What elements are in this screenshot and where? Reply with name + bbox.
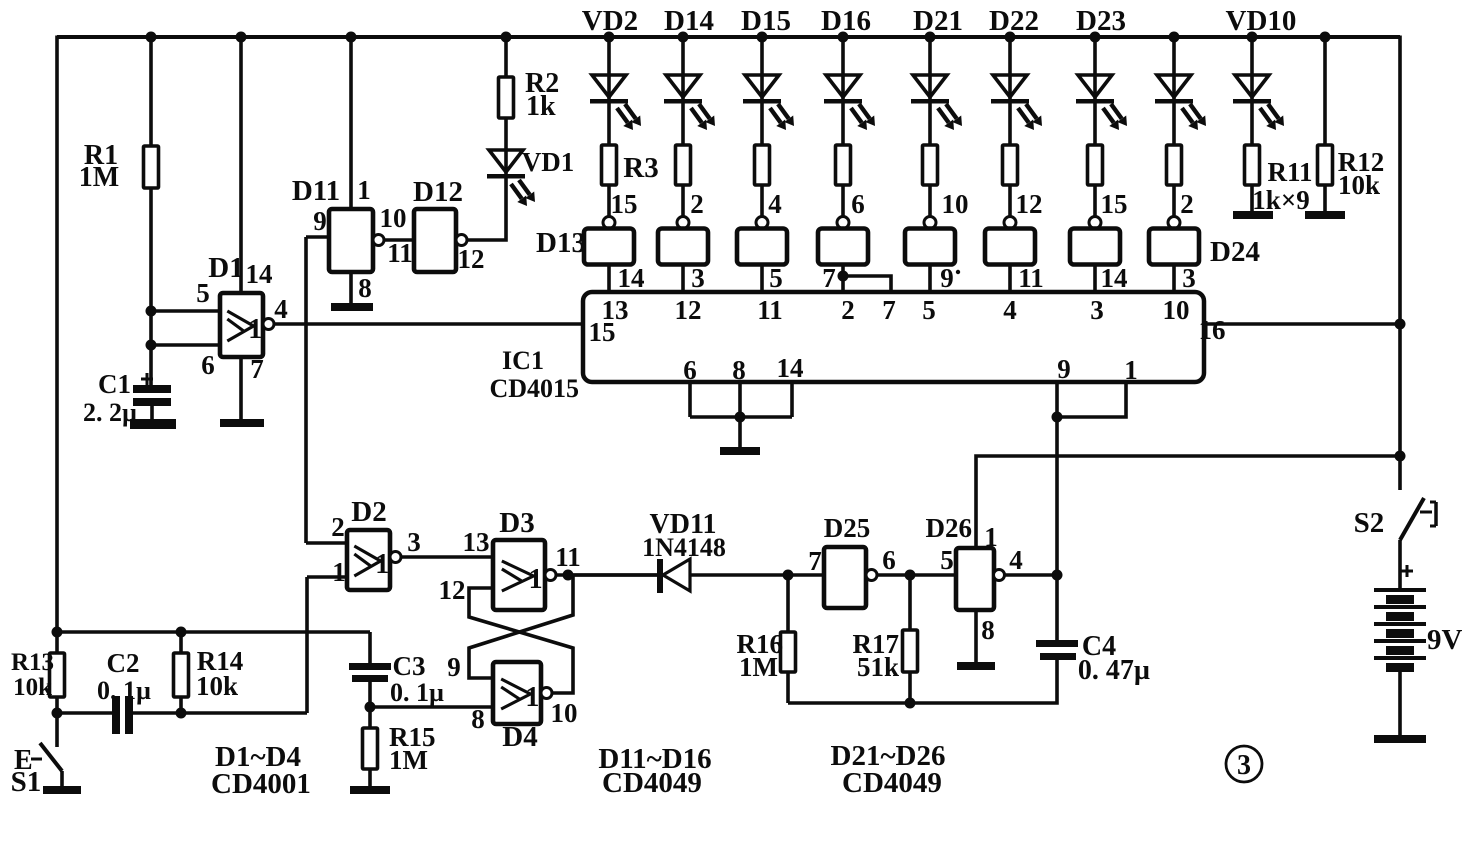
wire lower wire to C2 [57,711,112,715]
wire R15 to ground [368,769,372,786]
wire VD11 to D25 [690,573,824,577]
label D13 [536,227,586,259]
svg-text:9: 9 [447,652,461,682]
wire R14 bottom stub [179,697,183,713]
wire rail to LED 2 [681,37,685,145]
wire left border (supply to R13) [55,36,59,633]
svg-text:1M: 1M [389,745,428,775]
svg-text:6: 6 [683,355,697,385]
svg-text:11: 11 [387,238,413,268]
node right border pin16 [1395,319,1406,330]
ground battery [1374,735,1426,743]
svg-text:D16: D16 [821,5,871,37]
resistor branch 1 (1k) [602,145,617,185]
label D11 pin 1 [357,175,371,205]
LED branch 4 [824,75,862,104]
label D1 pin 4 [274,294,288,324]
label buffer 4 output pin 7 [822,263,836,293]
svg-text:10k: 10k [196,671,238,701]
svg-text:1k×9: 1k×9 [1252,185,1309,215]
node rail branch 7 [1090,32,1101,43]
svg-text:14: 14 [777,353,804,383]
label S1 [11,766,42,798]
label D26 pin 1 [984,522,998,552]
node right border mid [1395,451,1406,462]
wire D2 pin1 down to C2 wire [305,577,309,713]
label buffer 1 output pin 14 [618,263,645,293]
LED branch 7 arrows [1103,104,1127,130]
label buffer 2 input pin 2 [690,189,704,219]
wire S1 to ground [60,771,64,786]
svg-text:13: 13 [463,527,490,557]
resistor R12 [1318,145,1333,185]
svg-text:D14: D14 [664,5,714,37]
svg-text:IC1: IC1 [502,346,544,375]
wire D3out to VD11 [568,573,657,577]
svg-text:3: 3 [1182,263,1196,293]
svg-text:1: 1 [248,314,262,345]
gate D4 output bubble [541,688,552,699]
wire IC1 pin 6 down [688,382,692,417]
resistor branch 3 (1k) [755,145,770,185]
LED branch 8 [1155,75,1193,104]
buffer input bubble 6 [1004,217,1016,229]
LED branch 2 arrows [691,104,715,130]
buffer input bubble 3 [756,217,768,229]
gate D3 [493,540,545,610]
buffer D14b [658,229,708,265]
resistor branch 6 (1k) [1003,145,1018,185]
buffer D13 [584,229,634,265]
label IC1 pin 15 [589,317,616,347]
LED branch 2 [664,75,702,104]
svg-text:S1: S1 [11,766,42,798]
label R13 [11,649,54,676]
resistor R13 [50,653,65,697]
svg-text:0. 47µ: 0. 47µ [1078,655,1150,686]
resistor branch 5 (1k) [923,145,938,185]
node D3 out [563,570,574,581]
battery GB 9V [1374,588,1426,672]
label C4 [1082,631,1116,662]
label R11 [1267,157,1312,187]
wire buffer 6 to IC1 [1008,265,1012,293]
node R14 bottom [176,708,187,719]
svg-text:3: 3 [1237,750,1251,781]
node buffer4 jog [838,271,849,282]
wire right border (supply down to S2) [1398,36,1402,491]
LED branch 4 arrows [851,104,875,130]
resistor R11 (branch 9) [1245,145,1260,185]
wire to R15 [368,707,372,728]
wire battery to ground [1398,672,1402,735]
node rail branch 5 [925,32,936,43]
wire D1 pin 7 to ground [239,357,243,419]
label D3 [499,507,534,539]
label D22 [989,5,1039,37]
label D3 pin 12 [439,575,466,605]
figure number 3 [1226,746,1262,782]
svg-text:CD4015: CD4015 [489,374,579,403]
label D11 pin 8 [358,273,372,303]
svg-text:R3: R3 [623,152,658,184]
label C1 value 2.2&#181; [83,398,137,427]
svg-text:12: 12 [458,244,485,274]
label IC1 [502,346,544,375]
node C3-R15 [365,702,376,713]
label IC1 top pin 12 [675,295,702,325]
svg-text:15: 15 [1101,189,1128,219]
svg-text:1M: 1M [739,652,778,682]
label D11 pin 9 [313,206,327,236]
svg-text:14: 14 [246,259,273,289]
label R2 [525,68,559,99]
resistor branch 7 (1k) [1088,145,1103,185]
wire R16 lower [786,672,790,703]
label VD1 [522,147,575,177]
svg-text:2: 2 [841,295,855,325]
wire rail to R2 [504,37,508,77]
svg-text:R11: R11 [1267,157,1312,187]
svg-text:9: 9 [313,206,327,236]
node rail branch 8 [1169,32,1180,43]
node rail-D11pin1 [346,32,357,43]
label D26 [926,513,973,543]
wire upper tap to C3 [57,630,370,634]
wire resistor to buffer 1 [607,185,611,217]
wire R17 upper [908,575,912,630]
label R2 value 1k [526,91,556,122]
svg-text:7: 7 [250,354,264,384]
buffer D26 output bubble [994,570,1005,581]
label R15 [389,722,436,752]
buffer D11 [329,209,373,272]
wire rail to LED 4 [841,37,845,145]
svg-text:8: 8 [358,273,372,303]
label buffer 8 input pin 2 [1180,189,1194,219]
LED VD1 arrows [511,180,535,206]
wire rail to LED 5 [928,37,932,145]
label D11-D16 [598,743,711,775]
wire R14 top stub [179,632,183,653]
label buffer 8 output pin 3 [1182,263,1196,293]
node D26out-C4 [1052,570,1063,581]
label R16 [737,629,784,659]
wire S1 upper [55,713,59,747]
wire pins 6-8-14 tie [690,415,792,419]
label C2 [107,648,140,678]
wire resistor to buffer 4 [841,185,845,217]
svg-text:4: 4 [768,189,782,219]
label IC1 pin 6 [683,355,697,385]
label D21-D26 [831,740,946,772]
node pins 9-1 [1052,412,1063,423]
wire D26 out to pin9 line [1005,573,1058,577]
label CD4049 left [602,767,702,799]
svg-text:3: 3 [691,263,705,293]
label D4 [502,721,537,753]
svg-text:D4: D4 [502,721,537,753]
wire D11 pin 9 stub [306,235,329,239]
svg-text:D24: D24 [1210,236,1260,268]
wire D11 pin 8 to ground [349,272,353,303]
wire D2 pin 1 stub [307,575,347,579]
LED VD10 [1233,75,1271,104]
ground S1 [43,786,81,794]
label IC1 top pin 11 [757,295,783,325]
label D2 pin 2 [331,512,345,542]
svg-text:7: 7 [822,263,836,293]
label D12 pin 11 [387,238,413,268]
buffer input bubble 8 [1168,217,1180,229]
ground R12 [1305,211,1345,219]
svg-text:14: 14 [1101,263,1128,293]
wire rail to VD10 [1250,37,1254,145]
resistor branch 8 (1k) [1167,145,1182,185]
resistor R15 [363,728,378,769]
buffer D22b [985,229,1035,265]
node rail branch 2 [678,32,689,43]
label IC1 top pin 10 [1163,295,1190,325]
label buffer 2 output pin 3 [691,263,705,293]
wire R11 to ground [1250,185,1254,211]
wire D11 to D12 [384,238,414,242]
buffer D26 [956,548,994,610]
LED branch 1 arrows [617,104,641,130]
label buffer 3 input pin 4 [768,189,782,219]
label D1 pin 7 [250,354,264,384]
wire resistor to buffer 6 [1008,185,1012,217]
buffer D15b [737,229,787,265]
svg-text:D15: D15 [741,5,791,37]
label IC1 CD4015 [489,374,579,403]
svg-text:R13: R13 [11,649,54,676]
node R17 bottom [905,698,916,709]
wire rail to R1 [149,37,153,146]
svg-text:6: 6 [201,350,215,380]
LED branch 1 [590,75,628,104]
svg-text:4: 4 [1003,295,1017,325]
node R16 top [783,570,794,581]
label 9V [1427,624,1462,656]
label D26 pin 5 [940,545,954,575]
wire resistor to buffer 5 [928,185,932,217]
buffer D24 [1149,229,1199,265]
ground D26 pin 8 [957,662,995,670]
label D2 pin 1 [332,557,346,587]
node rail-VD10 [1247,32,1258,43]
wire buffer 2 to IC1 [681,265,685,293]
label R15 value 1M [389,745,428,775]
label R12 [1338,147,1385,177]
label D12 [413,176,463,208]
node rail branch 6 [1005,32,1016,43]
label buffer 3 output pin 5 [769,263,783,293]
resistor branch 4 (1k) [836,145,851,185]
label R13 value 10k [13,674,52,701]
svg-text:5: 5 [769,263,783,293]
label buffer 5 output pin 9 [940,263,954,293]
wire rail to LED 3 [760,37,764,145]
wire resistor to buffer 2 [681,185,685,217]
svg-text:10: 10 [1163,295,1190,325]
resistor R14 [174,653,189,697]
gate D3 symbol [502,561,543,595]
svg-text:D11: D11 [292,175,340,207]
label buffer 7 input pin 15 [1101,189,1128,219]
svg-text:9: 9 [940,263,954,293]
node rail branch 1 [604,32,615,43]
svg-text:3: 3 [407,527,421,557]
wire R16 upper [786,575,790,632]
node lower tap [52,708,63,719]
svg-text:9V: 9V [1427,624,1462,656]
svg-text:16: 16 [1199,315,1226,345]
label D1 pin 6 [201,350,215,380]
label CD4001 [211,768,311,800]
wire IC1 pin 14 down [790,382,794,417]
svg-text:4: 4 [1009,545,1023,575]
label D16 [821,5,871,37]
wire D25 to D26 [877,573,956,577]
switch S1 blade [40,743,62,771]
buffer input bubble 5 [924,217,936,229]
label C2 value 0.1&#181; [97,676,151,705]
svg-text:2: 2 [690,189,704,219]
label R17 [853,629,900,659]
svg-text:S2: S2 [1354,507,1385,539]
svg-text:8: 8 [732,355,746,385]
svg-text:0. 1µ: 0. 1µ [390,678,444,707]
buffer D12 output bubble [456,235,467,246]
svg-text:VD10: VD10 [1226,5,1297,37]
label IC1 top pin 3 [1090,295,1104,325]
resistor R2 [499,77,514,118]
node rail-R2 [501,32,512,43]
LED branch 5 arrows [938,104,962,130]
svg-text:CD4049: CD4049 [602,767,702,799]
gate D1 output bubble [263,319,274,330]
wire R17 lower [908,672,912,703]
LED branch 6 [991,75,1029,104]
gate D4 symbol [501,679,539,713]
stray dot after 9 [956,270,960,274]
switch S2 blade [1400,498,1424,540]
gate D3 output bubble [545,570,556,581]
label IC1 pin 16 [1199,315,1226,345]
node rail branch 3 [757,32,768,43]
label D14 [664,5,714,37]
label D23 [1076,5,1126,37]
svg-text:D1: D1 [208,252,243,284]
label CD4049 right [842,767,942,799]
buffer D23b [1070,229,1120,265]
label D4 pin 8 [471,704,485,734]
wire IC1 pin 1 down [1057,382,1126,417]
svg-text:CD4049: CD4049 [842,767,942,799]
label D1 pin 14 [246,259,273,289]
svg-text:6: 6 [851,189,865,219]
LED branch 5 [911,75,949,104]
ground IC1 pins 6-8-14 [720,447,760,455]
wire top supply rail [57,35,1400,39]
wire tie to ground [738,417,742,447]
wire D2 to D3 [401,555,493,559]
svg-text:11: 11 [1018,263,1044,293]
wire D26 pin 8 down [974,610,978,662]
resistor R1 [144,146,159,188]
label D26 pin 8 [981,615,995,645]
label R14 value 10k [196,671,238,701]
wire buffer 5 to IC1 [928,265,932,293]
label S2 [1354,507,1385,539]
ground C1 [130,419,176,429]
gate D2 output bubble [390,552,401,563]
wire jog to IC1 pin 7 [843,276,891,292]
resistor R17 [903,630,918,672]
svg-text:2: 2 [1180,189,1194,219]
label D4 pin 9 [447,652,461,682]
wire D12 output up to VD1 [467,176,506,240]
buffer D25 output bubble [866,570,877,581]
svg-text:C2: C2 [107,648,140,678]
label C4 value 0.47&#181; [1078,655,1150,686]
label C3 value 0.1&#181; [390,678,444,707]
label buffer 4 input pin 6 [851,189,865,219]
label D11 pin 10 [380,203,407,233]
label IC1 top pin 13 [602,295,629,325]
label D25 pin 6 [882,545,896,575]
node D1 pin5 tap [146,306,157,317]
label R17 value 51k [857,652,899,682]
svg-text:C3: C3 [393,651,426,681]
svg-text:12: 12 [1016,189,1043,219]
buffer D21b [905,229,955,265]
svg-text:1: 1 [1124,355,1138,385]
wire R1 to C1 [149,188,153,385]
svg-text:CD4001: CD4001 [211,768,311,800]
svg-text:14: 14 [618,263,645,293]
gate D1 symbol [227,311,262,345]
svg-text:D3: D3 [499,507,534,539]
svg-text:D2: D2 [351,496,386,528]
svg-text:D23: D23 [1076,5,1126,37]
label IC1 pin 1 [1124,355,1138,385]
node left border upper tap [52,627,63,638]
wire D3 output [556,573,657,577]
LED branch 8 arrows [1182,104,1206,130]
label D1 [208,252,243,284]
svg-text:10k: 10k [1338,170,1380,200]
svg-text:10: 10 [380,203,407,233]
label R16 value 1M [739,652,778,682]
LED branch 6 arrows [1018,104,1042,130]
wire C2 to corner [133,711,307,715]
wire rail to LED 8 [1172,37,1176,145]
label buffer 5 input pin 10 [942,189,969,219]
wire buffer 7 to IC1 [1093,265,1097,293]
wire rail to LED 7 [1093,37,1097,145]
wire cross D3out to D4 pin9 [469,575,573,678]
node pins 6-8-14 [735,412,746,423]
wire D1 pin 5 [151,309,221,313]
label IC1 pin 8 [732,355,746,385]
svg-text:6: 6 [882,545,896,575]
svg-text:7: 7 [808,546,822,576]
label IC1 top pin 5 [922,295,936,325]
label C1 [98,369,131,399]
wire buffer 3 to IC1 [760,265,764,293]
